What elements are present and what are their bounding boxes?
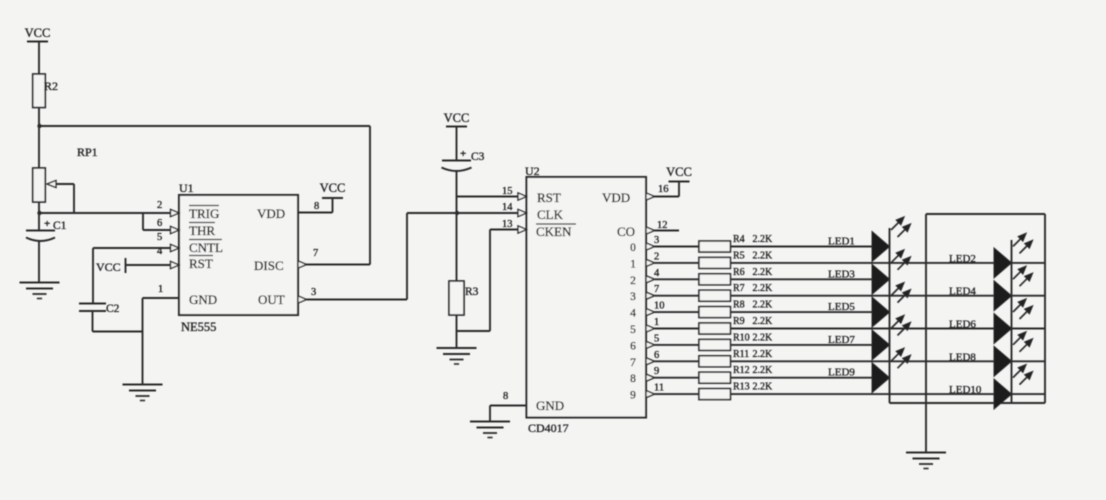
svg-text:5: 5 [630, 324, 636, 336]
svg-text:LED5: LED5 [828, 301, 855, 313]
svg-text:6: 6 [157, 218, 162, 229]
wire Q3 to resistor [655, 295, 700, 297]
power VCC net (top-left) [25, 26, 51, 74]
svg-text:8: 8 [503, 391, 508, 402]
svg-text:+: + [460, 148, 466, 160]
U1 pin name OUT [258, 292, 285, 307]
LED9 label [828, 367, 855, 379]
svg-text:2: 2 [630, 275, 636, 287]
U1 reference label [179, 181, 194, 195]
wire VDD pin 8 [298, 198, 333, 213]
resistor R12 [699, 372, 731, 383]
resistor R9 [699, 323, 731, 334]
capacitor C1 (polarized) [26, 213, 67, 282]
node junction R2/RP1/DISC [37, 124, 41, 128]
LED7 label [828, 334, 855, 346]
resistor R10 value 2.2K [753, 332, 774, 343]
U1 pin 2 arrow (TRIG) [171, 209, 180, 216]
pin number 11 [654, 383, 664, 394]
wire GND pin 1 vertical [142, 298, 144, 384]
resistor R7 [699, 290, 731, 301]
resistor R9 value 2.2K [753, 316, 774, 327]
svg-text:RST: RST [537, 190, 561, 205]
U2 output name 0 [630, 242, 636, 254]
U2 output Q8 pin 9 arrow [646, 374, 655, 381]
svg-text:LED2: LED2 [949, 253, 976, 265]
wire LED2 cathode to frame [1012, 262, 1046, 264]
svg-text:CKEN: CKEN [536, 224, 572, 239]
U2 output Q2 pin 4 arrow [646, 276, 655, 283]
svg-text:5: 5 [157, 232, 162, 243]
pin number 7 [654, 284, 659, 295]
wire R5 to LED2 [731, 262, 995, 264]
svg-text:5: 5 [654, 333, 659, 344]
resistor R2 [33, 74, 58, 108]
svg-text:DISC: DISC [254, 258, 284, 273]
LED10 label [949, 384, 982, 396]
wire C2 bottom to GND net [93, 331, 143, 333]
svg-text:7: 7 [313, 248, 318, 259]
svg-text:R4: R4 [733, 234, 745, 245]
resistor R11 [699, 356, 731, 367]
svg-text:15: 15 [502, 186, 513, 197]
pin number 8 (U2) [503, 391, 508, 402]
svg-text:CO: CO [617, 224, 635, 239]
resistor R13 label [733, 382, 750, 393]
wire CLK feed horizontal [407, 212, 518, 214]
svg-text:CLK: CLK [537, 207, 564, 222]
svg-text:C1: C1 [53, 220, 67, 232]
resistor R4 [699, 241, 731, 252]
wire GND pin 8 vertical [489, 406, 491, 422]
LED10 (diode) [994, 364, 1033, 409]
wire R4 to LED1 [731, 246, 873, 248]
U2 pin 14 arrow (CLK) [518, 209, 527, 216]
U2 output Q9 pin 11 arrow [646, 391, 655, 398]
svg-text:R10: R10 [733, 332, 750, 343]
U2 output name 7 [630, 357, 636, 369]
wire TRIG horizontal [39, 212, 170, 214]
wire R3 bottom [456, 315, 458, 348]
pin number 4 [157, 246, 163, 257]
svg-text:3: 3 [311, 287, 316, 298]
svg-text:VCC: VCC [25, 26, 51, 40]
U2 output Q3 pin 7 arrow [646, 292, 655, 299]
svg-text:2.2K: 2.2K [753, 300, 774, 311]
U2 output name 6 [630, 340, 636, 352]
U2 output Q1 pin 2 arrow [646, 259, 655, 266]
potentiometer RP1 [33, 126, 98, 213]
U2 pin name CLK [537, 207, 564, 222]
resistor R6 value 2.2K [753, 267, 774, 278]
wire R12 to LED9 [731, 377, 873, 379]
U1 pin name TRIG [189, 206, 219, 222]
resistor R10 label [733, 332, 750, 343]
resistor R6 [699, 274, 731, 285]
svg-text:THR: THR [189, 223, 215, 238]
svg-text:OUT: OUT [258, 292, 285, 307]
capacitor C2 [79, 303, 120, 332]
U1 pin name VDD [257, 206, 285, 221]
pin number 3 [311, 287, 316, 298]
resistor R13 [699, 389, 731, 400]
U2 output Q6 pin 5 arrow [646, 341, 655, 348]
svg-text:R2: R2 [44, 79, 58, 93]
svg-text:R7: R7 [733, 283, 745, 294]
svg-text:8: 8 [314, 201, 319, 212]
svg-text:U1: U1 [179, 181, 194, 195]
wire Q5 to resistor [655, 328, 700, 330]
wire RST pin 4 [126, 264, 171, 266]
resistor R5 value 2.2K [753, 250, 774, 261]
U1 pin name RST [189, 256, 213, 272]
svg-text:6: 6 [654, 350, 659, 361]
wire cathode frame left [925, 214, 927, 403]
U2 reference label [525, 164, 540, 178]
svg-text:14: 14 [502, 202, 513, 213]
node CLK/R3/C3 junction [455, 211, 459, 215]
LED5 label [828, 301, 855, 313]
wire DISC vertical [369, 126, 371, 265]
svg-text:13: 13 [502, 219, 513, 230]
LED3 (diode) [872, 250, 911, 295]
svg-text:R6: R6 [733, 267, 745, 278]
wire CO stub [655, 230, 680, 232]
U2 pin name GND [536, 398, 564, 413]
wire Q7 to resistor [655, 360, 700, 362]
wire LED10 cathode to frame [1012, 393, 1046, 395]
wire LED4 cathode to frame [1012, 295, 1046, 297]
svg-text:TRIG: TRIG [189, 206, 219, 221]
resistor R11 label [733, 349, 749, 360]
wire VDD pin 16 [646, 182, 679, 197]
svg-text:R3: R3 [465, 286, 479, 298]
ground (U2 pin 8) [470, 422, 510, 438]
U2 output Q4 pin 10 arrow [646, 309, 655, 316]
U2 pin 16 arrow (VDD) [646, 193, 655, 200]
U2 pin 13 arrow (CKEN) [518, 226, 527, 233]
U1 pin name DISC [254, 258, 284, 273]
svg-text:9: 9 [630, 390, 636, 402]
capacitor C3 (polarized) [442, 148, 485, 281]
svg-text:LED10: LED10 [949, 384, 982, 396]
wire LED6 cathode to frame [1012, 328, 1046, 330]
pin number 5 [157, 232, 162, 243]
wire RP1 bottom to TRIG node [38, 202, 40, 213]
svg-text:4: 4 [654, 268, 660, 279]
LED2 (diode) [994, 233, 1033, 278]
wire cathode frame top [926, 213, 1045, 215]
wire CKEN tie horizontal [457, 330, 491, 332]
U2 output name 4 [630, 308, 636, 320]
svg-text:LED4: LED4 [949, 286, 976, 298]
wire CNTL vertical to C2 [92, 248, 94, 304]
LED2 label [949, 253, 976, 265]
wire Q0 to resistor [655, 246, 700, 248]
wire R11 to LED8 [731, 360, 995, 362]
svg-text:2.2K: 2.2K [753, 283, 774, 294]
op-amp U1 body (NE555) [179, 195, 298, 315]
LED6 label [949, 319, 976, 331]
svg-text:R9: R9 [733, 316, 745, 327]
wire Q9 to resistor [655, 393, 700, 395]
U2 output Q0 pin 3 arrow [646, 243, 655, 250]
U2 output name 1 [630, 258, 636, 270]
svg-text:VDD: VDD [257, 206, 285, 221]
svg-text:VCC: VCC [444, 111, 470, 125]
svg-text:C3: C3 [471, 151, 485, 163]
svg-text:9: 9 [654, 366, 659, 377]
pin number 10 [654, 301, 665, 312]
U1 pin 4 arrow (RST) [171, 261, 180, 268]
U2 pin name CO [617, 224, 635, 239]
svg-text:4: 4 [630, 308, 636, 320]
pin number 4 [654, 268, 660, 279]
U1 pin 7 arrow (DISC) [298, 261, 307, 268]
wire Q8 to resistor [655, 377, 700, 379]
wire THR horizontal [143, 229, 170, 231]
resistor R8 [699, 307, 731, 318]
resistor R4 label [733, 234, 745, 245]
LED4 (diode) [994, 266, 1033, 311]
ground (below R3) [437, 348, 477, 364]
svg-text:U2: U2 [525, 164, 540, 178]
resistor R8 label [733, 300, 745, 311]
svg-text:2.2K: 2.2K [753, 382, 774, 393]
U2 pin name CKEN [536, 224, 576, 239]
resistor R7 label [733, 283, 745, 294]
wire frame to ground [925, 403, 927, 452]
LED1 label [828, 236, 855, 248]
pin number 8 [314, 201, 319, 212]
U2 pin name VDD [602, 190, 630, 205]
LED5 (diode) [872, 282, 911, 327]
svg-text:NE555: NE555 [181, 320, 216, 334]
svg-text:8: 8 [630, 373, 636, 385]
svg-text:6: 6 [630, 340, 636, 352]
LED4 label [949, 286, 976, 298]
pin number 13 [502, 219, 513, 230]
resistor R5 label [733, 250, 745, 261]
pin number 2 [157, 200, 162, 211]
wire cathode frame right [1044, 214, 1046, 403]
svg-text:VCC: VCC [96, 260, 121, 274]
wire Q6 to resistor [655, 344, 700, 346]
svg-text:GND: GND [189, 292, 217, 307]
wire left cathode bus [889, 228, 891, 403]
U2 output name 2 [630, 275, 636, 287]
wire R8 to LED5 [731, 311, 873, 313]
svg-text:C2: C2 [106, 303, 120, 315]
pin number 2 [654, 251, 659, 262]
ground (below C1) [20, 283, 60, 299]
LED8 (diode) [994, 332, 1033, 377]
wire DISC pin 7 horizontal [298, 264, 370, 266]
ground (U1 pin 1) [123, 385, 163, 401]
wire LED8 cathode to frame [1012, 360, 1046, 362]
wire cathode frame bottom [890, 402, 1046, 404]
svg-text:2.2K: 2.2K [753, 365, 774, 376]
resistor R12 label [733, 365, 750, 376]
power VCC net (above C3) [444, 111, 470, 160]
pin number 1 [158, 284, 163, 295]
wire junction to DISC (top horizontal) [39, 125, 370, 127]
wire R10 to LED7 [731, 344, 873, 346]
wire RST feed (U2 pin 15) [457, 196, 519, 198]
svg-text:2.2K: 2.2K [753, 267, 774, 278]
U2 output name 9 [630, 390, 636, 402]
resistor R9 label [733, 316, 745, 327]
svg-text:2.2K: 2.2K [753, 332, 774, 343]
U2 output name 8 [630, 373, 636, 385]
wire CKEN tie vertical [489, 230, 491, 332]
U1 pin 3 arrow (OUT) [298, 296, 307, 303]
wire right cathode bus [1011, 240, 1013, 403]
svg-text:1: 1 [654, 317, 659, 328]
svg-text:2.2K: 2.2K [753, 234, 774, 245]
resistor R10 [699, 339, 731, 350]
svg-text:RP1: RP1 [77, 145, 98, 159]
wire R9 to LED6 [731, 328, 995, 330]
LED1 (diode) [872, 217, 911, 262]
pin number 7 [313, 248, 318, 259]
svg-text:CD4017: CD4017 [528, 421, 569, 435]
svg-text:1: 1 [158, 284, 163, 295]
svg-text:LED8: LED8 [949, 351, 976, 363]
svg-text:10: 10 [654, 301, 665, 312]
pin number 6 [654, 350, 659, 361]
resistor R6 label [733, 267, 745, 278]
U1 pin 6 arrow (THR) [171, 226, 180, 233]
svg-text:R11: R11 [733, 349, 749, 360]
svg-text:0: 0 [630, 242, 636, 254]
svg-text:2: 2 [157, 200, 162, 211]
resistor R5 [699, 257, 731, 268]
resistor R3 [449, 281, 479, 315]
wire R13 to LED10 [731, 393, 995, 395]
power VCC net (U1 pin 8) [320, 181, 346, 198]
svg-text:CNTL: CNTL [189, 240, 223, 255]
pin number 14 [502, 202, 513, 213]
pin number 15 [502, 186, 513, 197]
svg-text:LED6: LED6 [949, 319, 976, 331]
LED6 (diode) [994, 299, 1033, 344]
resistor R7 value 2.2K [753, 283, 774, 294]
U1 label NE555 [181, 320, 216, 334]
svg-text:LED1: LED1 [828, 236, 855, 248]
pin number 1 [654, 317, 659, 328]
svg-text:LED9: LED9 [828, 367, 855, 379]
svg-text:+: + [44, 218, 50, 230]
resistor R8 value 2.2K [753, 300, 774, 311]
resistor R12 value 2.2K [753, 365, 774, 376]
resistor R4 value 2.2K [753, 234, 774, 245]
svg-text:LED3: LED3 [828, 268, 855, 280]
svg-text:R8: R8 [733, 300, 745, 311]
wire OUT vertical [406, 213, 408, 300]
svg-text:R5: R5 [733, 250, 745, 261]
power VCC net (U2 pin 16) [666, 165, 692, 182]
svg-text:1: 1 [630, 258, 636, 270]
U1 pin name CNTL [189, 240, 223, 256]
U2 pin 12 arrow (CO) [646, 227, 655, 234]
LED3 label [828, 268, 855, 280]
svg-text:R13: R13 [733, 382, 750, 393]
wire GND pin 1 horizontal [143, 297, 180, 299]
pin number 16 [658, 184, 669, 195]
LED8 label [949, 351, 976, 363]
svg-text:2.2K: 2.2K [753, 349, 774, 360]
U2 pin 15 arrow (RST) [518, 193, 527, 200]
wire Q2 to resistor [655, 278, 700, 280]
svg-text:2: 2 [654, 251, 659, 262]
pin number 3 [654, 235, 659, 246]
U1 pin 5 arrow (CNTL) [171, 244, 180, 251]
svg-text:11: 11 [654, 383, 664, 394]
LED7 (diode) [872, 315, 911, 360]
U2 output Q7 pin 6 arrow [646, 358, 655, 365]
ground (LED cathode bus) [906, 453, 946, 469]
U2 output name 5 [630, 324, 636, 336]
svg-text:R12: R12 [733, 365, 750, 376]
U2 label CD4017 [528, 421, 569, 435]
U1 pin name GND [189, 292, 217, 307]
LED9 (diode) [872, 348, 911, 393]
svg-text:3: 3 [654, 235, 659, 246]
svg-text:VDD: VDD [602, 190, 630, 205]
wire R6 to LED3 [731, 278, 873, 280]
svg-text:7: 7 [630, 357, 636, 369]
svg-text:7: 7 [654, 284, 659, 295]
wire THR jog vertical [142, 213, 144, 230]
pin number 6 [157, 218, 162, 229]
svg-text:GND: GND [536, 398, 564, 413]
wire R7 to LED4 [731, 295, 995, 297]
pin number 12 [657, 220, 668, 231]
wire OUT horizontal [307, 299, 408, 301]
node TRIG/THR/C1 junction [37, 211, 41, 215]
U2 output Q5 pin 1 arrow [646, 325, 655, 332]
svg-text:VCC: VCC [666, 165, 692, 179]
resistor R11 value 2.2K [753, 349, 774, 360]
wire CNTL horizontal [93, 247, 170, 249]
pin number 9 [654, 366, 659, 377]
wire Q1 to resistor [655, 262, 700, 264]
svg-text:2.2K: 2.2K [753, 250, 774, 261]
wire Q4 to resistor [655, 311, 700, 313]
wire GND pin 8 horizontal [490, 405, 527, 407]
svg-text:3: 3 [630, 291, 636, 303]
U1 pin name THR [189, 223, 215, 239]
svg-text:LED7: LED7 [828, 334, 855, 346]
resistor R13 value 2.2K [753, 382, 774, 393]
power VCC tap at RST (pin 4) [96, 258, 126, 274]
U2 output name 3 [630, 291, 636, 303]
svg-text:16: 16 [658, 184, 669, 195]
counter U2 body (CD4017) [527, 177, 647, 418]
pin number 5 [654, 333, 659, 344]
wire CKEN pin 13 [490, 229, 518, 231]
svg-text:RST: RST [189, 256, 213, 271]
svg-text:12: 12 [657, 220, 668, 231]
U2 pin name RST [537, 190, 561, 205]
wire R2 bottom to junction [38, 108, 40, 127]
svg-text:2.2K: 2.2K [753, 316, 774, 327]
svg-text:VCC: VCC [320, 181, 346, 195]
